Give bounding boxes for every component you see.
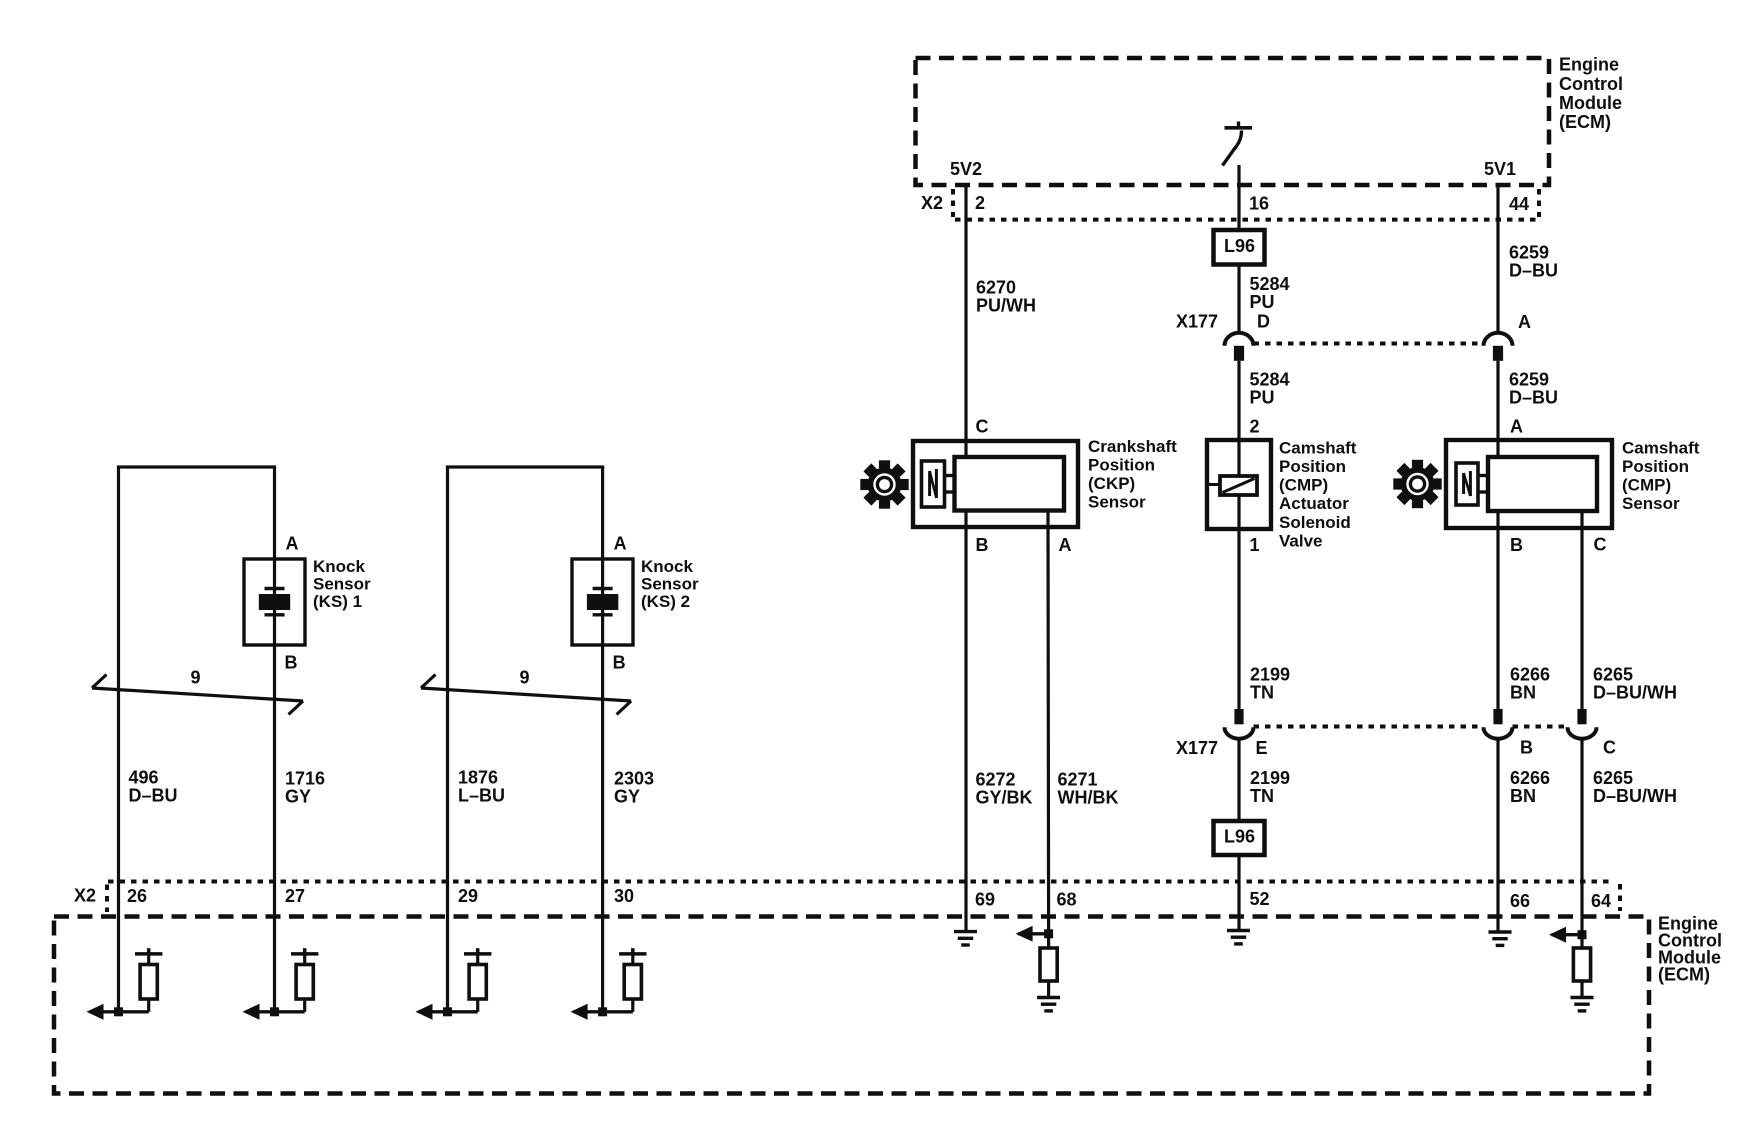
shield ref 9 KS2 — [520, 668, 530, 688]
pin A label CKP — [1059, 535, 1072, 555]
svg-text:(KS) 1: (KS) 1 — [313, 592, 362, 611]
svg-text:PU/WH: PU/WH — [976, 296, 1036, 316]
L96 box upper — [1214, 230, 1265, 265]
pin 66 — [1510, 891, 1530, 911]
wire 6270 (pin 2 to CKP C) — [964, 185, 967, 457]
pin C label lower — [1603, 738, 1616, 758]
label 6271 WH/BK — [1058, 770, 1119, 808]
svg-text:L96: L96 — [1224, 236, 1255, 256]
X2 separator right — [1537, 189, 1541, 217]
pin B label KS2 — [613, 653, 626, 673]
svg-text:PU: PU — [1250, 292, 1275, 312]
wire 6265 (CMP C to X177 C) — [1580, 511, 1583, 709]
X2 separator left — [951, 189, 955, 217]
CMP sensor label — [1622, 438, 1700, 513]
pin B label lower — [1520, 738, 1533, 758]
svg-text:A: A — [614, 534, 627, 554]
svg-text:A: A — [1059, 535, 1072, 555]
svg-text:(CMP): (CMP) — [1279, 476, 1328, 495]
svg-text:Sensor: Sensor — [1088, 492, 1146, 511]
svg-text:9: 9 — [191, 668, 201, 688]
svg-text:D–BU/WH: D–BU/WH — [1593, 683, 1677, 703]
shield symbol KS2 — [421, 675, 631, 715]
svg-text:X177: X177 — [1176, 738, 1218, 758]
CMP actuator label — [1279, 438, 1357, 550]
X2 separator bottom-right — [1618, 884, 1622, 911]
wire 5284 (X177 D to solenoid) — [1237, 361, 1240, 476]
connector X177 label lower — [1176, 738, 1218, 758]
svg-text:1716: 1716 — [285, 769, 325, 789]
svg-text:Position: Position — [1279, 457, 1346, 476]
svg-text:(CKP): (CKP) — [1088, 474, 1135, 493]
ECM top dashed box — [916, 58, 1550, 185]
CMP pickup element — [1456, 463, 1478, 505]
piezo element KS1 — [259, 559, 290, 645]
svg-text:496: 496 — [129, 768, 159, 788]
svg-text:B: B — [613, 653, 626, 673]
svg-text:6270: 6270 — [976, 278, 1016, 298]
svg-text:2: 2 — [975, 193, 985, 213]
pin B label CMP — [1510, 535, 1523, 555]
label 6266 BN upper — [1510, 665, 1550, 703]
svg-text:68: 68 — [1057, 890, 1077, 910]
net 5V2 — [950, 159, 982, 179]
wire below KS2 — [601, 645, 604, 1012]
svg-text:D–BU: D–BU — [1509, 388, 1558, 408]
svg-text:6265: 6265 — [1593, 665, 1633, 685]
pin 26 — [127, 886, 147, 906]
shield symbol KS1 — [92, 675, 303, 715]
knock sensor KS2 box — [572, 559, 633, 645]
CKP inner box — [955, 457, 1065, 511]
piezo element KS2 — [587, 559, 618, 645]
svg-text:A: A — [286, 534, 299, 554]
svg-text:PU: PU — [1250, 388, 1275, 408]
svg-text:D–BU/WH: D–BU/WH — [1593, 786, 1677, 806]
svg-text:X2: X2 — [921, 193, 943, 213]
wire 6272 (CKP B to pin 69) — [964, 511, 967, 932]
label 496 D-BU — [129, 768, 178, 806]
svg-text:C: C — [1594, 535, 1607, 555]
svg-text:6265: 6265 — [1593, 768, 1633, 788]
pin 44 — [1509, 194, 1529, 214]
svg-text:X177: X177 — [1176, 312, 1218, 332]
X2 connector dotted line (bottom) — [108, 880, 1613, 884]
ground pin 66 — [1489, 932, 1512, 945]
svg-text:BN: BN — [1510, 786, 1536, 806]
pin A label upper — [1518, 312, 1531, 332]
svg-text:27: 27 — [285, 886, 305, 906]
svg-text:Sensor: Sensor — [641, 574, 699, 593]
inline connector X177-A — [1484, 333, 1513, 361]
ground pin 52 — [1227, 931, 1250, 944]
svg-text:B: B — [976, 535, 989, 555]
inline connector X177-D — [1225, 333, 1254, 361]
svg-text:30: 30 — [614, 886, 634, 906]
svg-text:GY: GY — [614, 787, 640, 807]
svg-text:52: 52 — [1250, 889, 1270, 909]
wire below KS1 — [273, 645, 276, 1012]
svg-text:Position: Position — [1622, 457, 1689, 476]
pin B label KS1 — [285, 653, 298, 673]
svg-text:C: C — [1603, 738, 1616, 758]
connector X177 label — [1176, 312, 1218, 332]
wire 6271 (CKP A to pin 68) — [1046, 511, 1050, 934]
svg-text:Knock: Knock — [313, 557, 366, 576]
svg-text:1876: 1876 — [458, 768, 498, 788]
svg-text:2: 2 — [1250, 417, 1260, 437]
label 6265 D-BU/WH lower — [1593, 768, 1677, 806]
wire 6259 (pin 44 to X177 A) — [1496, 185, 1499, 333]
svg-text:X2: X2 — [74, 886, 96, 906]
svg-text:Valve: Valve — [1279, 531, 1323, 550]
label 6259 D-BU lower — [1509, 370, 1558, 408]
svg-text:6272: 6272 — [976, 770, 1016, 790]
wire 6266 (CMP B to X177 B) — [1496, 511, 1499, 709]
gear icon CKP — [860, 460, 908, 508]
pin 16 — [1249, 194, 1269, 214]
ECM bottom label — [1658, 914, 1722, 985]
X177 dotted line (D to A) — [1254, 342, 1484, 346]
svg-text:L96: L96 — [1224, 827, 1255, 847]
svg-text:Control: Control — [1559, 74, 1623, 94]
wire 2199 (X177 E to L96) — [1237, 739, 1240, 821]
wire 5284 (pin 16 to L96) — [1237, 185, 1240, 230]
pin 2 label CMP actuator — [1250, 417, 1260, 437]
svg-text:A: A — [1510, 417, 1523, 437]
pin 64 — [1591, 891, 1611, 911]
solenoid element — [1209, 476, 1257, 495]
pin B label CKP — [976, 535, 989, 555]
ECM top label — [1559, 55, 1623, 133]
pin 68 — [1057, 890, 1077, 910]
svg-text:6266: 6266 — [1510, 665, 1550, 685]
knock sensor KS1 label — [313, 557, 371, 611]
wire 6266 (X177 B to pin 66) — [1496, 739, 1499, 932]
X177 dotted line (E to B) — [1254, 725, 1484, 729]
svg-text:TN: TN — [1250, 683, 1274, 703]
pin 69 — [975, 890, 995, 910]
svg-text:B: B — [285, 653, 298, 673]
wire (L96 to pin 52) — [1237, 855, 1240, 931]
svg-text:B: B — [1520, 738, 1533, 758]
svg-text:(ECM): (ECM) — [1559, 112, 1611, 132]
svg-text:Camshaft: Camshaft — [1622, 438, 1700, 457]
CKP sensor outer box — [913, 441, 1078, 527]
svg-text:D–BU: D–BU — [129, 786, 178, 806]
label 6270 PU/WH — [976, 278, 1036, 316]
pin C label CMP — [1594, 535, 1607, 555]
svg-text:D: D — [1257, 312, 1270, 332]
wire 2199 (solenoid to X177 E) — [1237, 495, 1240, 709]
shield ref 9 KS1 — [191, 668, 201, 688]
L96 box lower — [1214, 821, 1265, 855]
switch (driver) inside ECM — [1223, 122, 1253, 186]
svg-text:Module: Module — [1559, 93, 1622, 113]
ECM input circuit at x=118.5 — [87, 948, 163, 1020]
ground pin 69 — [954, 932, 977, 945]
svg-text:9: 9 — [520, 668, 530, 688]
CMP pickup stubs — [1478, 476, 1488, 493]
svg-text:1: 1 — [1250, 535, 1260, 555]
svg-text:Knock: Knock — [641, 557, 694, 576]
svg-text:16: 16 — [1249, 194, 1269, 214]
knock sensor KS2 label — [641, 557, 699, 611]
label 5284 PU lower — [1250, 370, 1290, 408]
ECM input circuit at x=602.6 — [571, 948, 647, 1020]
svg-text:26: 26 — [127, 886, 147, 906]
svg-text:Engine: Engine — [1559, 55, 1619, 75]
svg-text:5284: 5284 — [1250, 274, 1290, 294]
inline connector X177-E — [1225, 709, 1254, 739]
svg-text:BN: BN — [1510, 683, 1536, 703]
wire 6265 (X177 C to pin 64) — [1580, 739, 1583, 935]
CMP sensor outer box — [1446, 440, 1612, 528]
label 6265 D-BU/WH upper — [1593, 665, 1677, 703]
pin A label CMP — [1510, 417, 1523, 437]
pin 30 — [614, 886, 634, 906]
CMP actuator solenoid box — [1207, 440, 1271, 529]
gear icon CMP — [1393, 460, 1441, 508]
svg-text:Position: Position — [1088, 455, 1155, 474]
label 1876 L-BU — [458, 768, 505, 806]
pin 52 — [1250, 889, 1270, 909]
svg-text:6259: 6259 — [1509, 370, 1549, 390]
label 2199 TN lower — [1250, 768, 1290, 806]
ECM circuit pin 68 — [1016, 926, 1061, 1011]
svg-text:L–BU: L–BU — [458, 786, 505, 806]
wire top loop KS2 — [446, 467, 604, 1012]
svg-text:69: 69 — [975, 890, 995, 910]
pin A label KS1 — [286, 534, 299, 554]
pin 27 — [285, 886, 305, 906]
pin C label — [976, 417, 989, 437]
X2 separator bottom-left — [105, 885, 109, 913]
label 6272 GY/BK — [976, 770, 1033, 808]
label 2199 TN upper — [1250, 665, 1290, 703]
ECM bottom dashed box — [54, 917, 1649, 1094]
ECM circuit pin 64 — [1549, 927, 1594, 1011]
svg-text:(ECM): (ECM) — [1658, 965, 1710, 985]
svg-text:WH/BK: WH/BK — [1058, 788, 1119, 808]
wire 6259 (X177 A to CMP) — [1496, 361, 1499, 457]
svg-text:E: E — [1256, 738, 1268, 758]
svg-text:GY/BK: GY/BK — [976, 788, 1033, 808]
svg-text:Crankshaft: Crankshaft — [1088, 437, 1177, 456]
svg-text:A: A — [1518, 312, 1531, 332]
inline connector X177-C — [1568, 709, 1597, 739]
label 6259 D-BU upper — [1509, 243, 1558, 281]
svg-text:GY: GY — [285, 787, 311, 807]
svg-text:Solenoid: Solenoid — [1279, 513, 1351, 532]
svg-text:Sensor: Sensor — [1622, 494, 1680, 513]
svg-text:5V1: 5V1 — [1484, 159, 1516, 179]
label 6266 BN lower — [1510, 768, 1550, 806]
connector X2 label (bottom) — [74, 886, 96, 906]
label 2303 GY — [614, 769, 654, 807]
knock sensor KS1 box — [244, 559, 305, 645]
pin 2 — [975, 193, 985, 213]
svg-text:64: 64 — [1591, 891, 1611, 911]
ECM input circuit at x=274.5 — [243, 948, 319, 1020]
label 1716 GY — [285, 769, 325, 807]
pin E label — [1256, 738, 1268, 758]
svg-text:2303: 2303 — [614, 769, 654, 789]
svg-text:D–BU: D–BU — [1509, 261, 1558, 281]
ECM input circuit at x=447.5 — [416, 948, 492, 1020]
pin 1 label — [1250, 535, 1260, 555]
svg-text:6259: 6259 — [1509, 243, 1549, 263]
svg-text:44: 44 — [1509, 194, 1529, 214]
svg-text:2199: 2199 — [1250, 768, 1290, 788]
connector X2 label (top) — [921, 193, 943, 213]
svg-text:(KS) 2: (KS) 2 — [641, 592, 690, 611]
svg-text:Actuator: Actuator — [1279, 494, 1349, 513]
svg-text:Camshaft: Camshaft — [1279, 438, 1357, 457]
svg-text:5284: 5284 — [1250, 370, 1290, 390]
svg-text:TN: TN — [1250, 786, 1274, 806]
inline connector X177-B — [1484, 709, 1513, 739]
net 5V1 — [1484, 159, 1516, 179]
pin D label — [1257, 312, 1270, 332]
label 5284 PU upper — [1250, 274, 1290, 312]
CKP sensor label — [1088, 437, 1177, 512]
wire 5284 (L96 to X177 D) — [1237, 265, 1240, 334]
svg-text:5V2: 5V2 — [950, 159, 982, 179]
svg-text:29: 29 — [458, 886, 478, 906]
svg-text:C: C — [976, 417, 989, 437]
svg-text:2199: 2199 — [1250, 665, 1290, 685]
pin A label KS2 — [614, 534, 627, 554]
pin 29 — [458, 886, 478, 906]
CMP inner box — [1488, 457, 1597, 511]
svg-text:B: B — [1510, 535, 1523, 555]
CKP pickup stubs — [945, 476, 955, 493]
wire top loop KS1 — [117, 467, 276, 1012]
svg-text:Sensor: Sensor — [313, 574, 371, 593]
CKP pickup element — [922, 461, 945, 507]
svg-text:6271: 6271 — [1058, 770, 1098, 790]
svg-text:66: 66 — [1510, 891, 1530, 911]
X2 connector dotted line (top) — [955, 218, 1538, 222]
svg-text:6266: 6266 — [1510, 768, 1550, 788]
X177 dotted line (B to C) — [1513, 725, 1568, 729]
svg-text:(CMP): (CMP) — [1622, 475, 1671, 494]
